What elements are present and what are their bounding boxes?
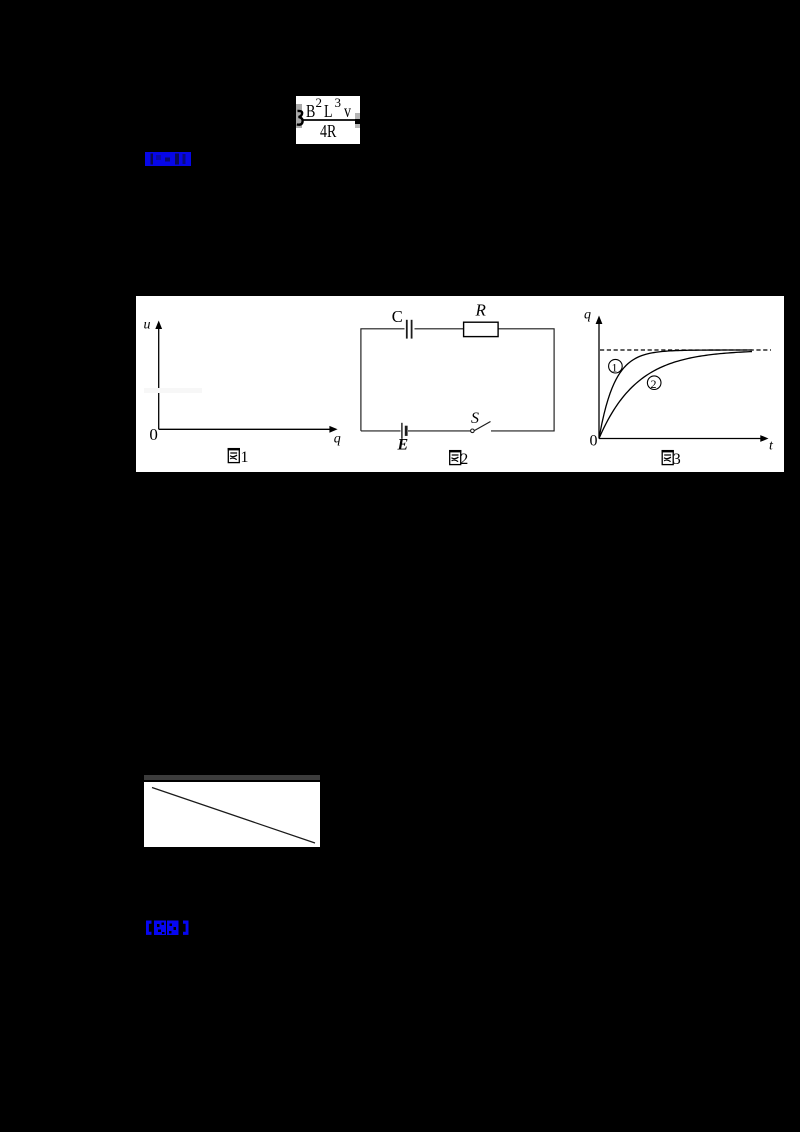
svg-text:1: 1: [241, 449, 249, 466]
svg-text:S: S: [471, 410, 479, 427]
svg-text:C: C: [392, 307, 403, 326]
svg-text:2: 2: [651, 377, 657, 391]
svg-text:0: 0: [149, 425, 158, 444]
svg-text:E: E: [397, 437, 409, 454]
svg-text:R: R: [475, 300, 487, 319]
svg-text:q: q: [584, 308, 591, 323]
svg-text:1: 1: [612, 361, 618, 375]
svg-text:3: 3: [673, 451, 681, 468]
svg-text:0: 0: [590, 432, 598, 449]
svg-text:2: 2: [460, 451, 468, 468]
svg-text:u: u: [144, 318, 151, 333]
svg-text:q: q: [334, 432, 341, 447]
